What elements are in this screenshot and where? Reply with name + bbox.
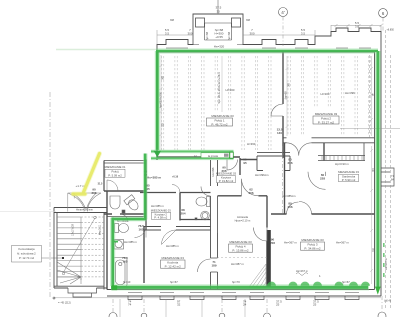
svg-text:hp=68: hp=68 [205,31,209,40]
svg-text:189: 189 [211,264,216,268]
svg-text:25: 25 [276,303,280,307]
svg-text:Hmax=280/mm: Hmax=280/mm [76,209,93,212]
svg-text:31.5: 31.5 [98,183,103,186]
svg-text:300: 300 [187,32,192,36]
svg-text:MIESZKANIE 03: MIESZKANIE 03 [151,208,172,212]
svg-text:P: 15.86 m2: P: 15.86 m2 [232,248,249,252]
svg-text:Hs=385 m: Hs=385 m [166,244,179,248]
svg-text:25: 25 [313,303,317,307]
svg-text:206: 206 [248,191,253,195]
svg-text:hp=67: hp=67 [170,280,178,284]
svg-text:6: 6 [382,11,385,16]
svg-text:Hs=385 m: Hs=385 m [151,204,164,208]
svg-text:Hp=0.90 m: Hp=0.90 m [335,162,349,166]
svg-text:Hs=385cm: Hs=385cm [282,194,296,198]
svg-text:Hs=385 m: Hs=385 m [124,240,137,244]
svg-text:P: 19.82 m2: P: 19.82 m2 [219,179,234,183]
svg-text:hp=70: hp=70 [232,280,240,284]
svg-text:MIESZKANIE 03: MIESZKANIE 03 [229,240,252,244]
svg-text:95: 95 [243,161,247,165]
svg-text:MIESZKANIE 03: MIESZKANIE 03 [211,114,234,118]
svg-text:= -45 (212): = -45 (212) [58,301,71,305]
svg-text:P: 5.90 m2: P: 5.90 m2 [342,178,356,182]
svg-text:206: 206 [91,191,96,195]
svg-text:P: 4.58 m2: P: 4.58 m2 [154,216,168,220]
svg-text:30: 30 [217,10,221,14]
svg-text:H=360: H=360 [247,142,256,146]
svg-text:P: 46.72 m2: P: 46.72 m2 [211,122,228,126]
svg-text:165: 165 [138,228,143,232]
svg-text:Komunikacja: Komunikacja [18,247,34,251]
svg-text:MIESZKANIE 03: MIESZKANIE 03 [216,172,237,176]
svg-text:Hs=267 m: Hs=267 m [384,258,388,270]
svg-text:+0.16: +0.16 [172,176,179,179]
svg-text:206: 206 [270,241,275,245]
svg-text:H=300: H=300 [321,92,330,96]
svg-text:Hs=396cm: Hs=396cm [255,173,269,177]
svg-text:Antresola: Antresola [237,215,249,219]
svg-text:MIESZKANIE 03: MIESZKANIE 03 [162,256,185,260]
svg-text:P: 12.74 m2: P: 12.74 m2 [19,256,35,260]
svg-text:228: 228 [320,177,325,181]
svg-text:ła prosta: ła prosta [208,154,219,158]
svg-text:3.5: 3.5 [355,25,360,29]
svg-text:206: 206 [287,205,292,209]
svg-text:hp=10: hp=10 [123,280,131,284]
svg-text:Hs=367 m: Hs=367 m [336,241,349,245]
svg-text:H=300: H=300 [226,88,235,92]
svg-text:+0.55: +0.55 [215,35,223,39]
svg-text:hp=68: hp=68 [227,31,231,40]
svg-text:hp=67: hp=67 [342,280,350,284]
svg-text:P: 33.27 m2: P: 33.27 m2 [318,120,335,124]
svg-text:Hs=385 m: Hs=385 m [147,176,161,180]
svg-text:P: 12.42 m2: P: 12.42 m2 [165,264,182,268]
svg-text:(-)0.45: (-)0.45 [384,300,392,303]
svg-text:Hpon=2.10 m: Hpon=2.10 m [235,219,251,223]
svg-text:368: 368 [246,19,251,22]
svg-text:Korytarz 2: Korytarz 2 [155,212,168,216]
svg-text:Hs=396: Hs=396 [211,167,215,177]
svg-text:Spr. 36.2+36.6+32.2+28.4: Spr. 36.2+36.6+32.2+28.4 [217,72,221,104]
svg-text:206: 206 [287,161,292,165]
svg-text:300: 300 [249,32,254,36]
svg-text:Hs=267 m: Hs=267 m [296,269,308,273]
svg-text:165: 165 [122,260,127,264]
svg-text:Hs=387 m: Hs=387 m [231,262,244,266]
svg-text:Hs=396: Hs=396 [345,91,355,95]
svg-text:3.5: 3.5 [301,32,306,36]
svg-text:17x17.6/29: 17x17.6/29 [72,223,75,236]
svg-text:140: 140 [277,131,282,135]
svg-text:kl. schodowa 2: kl. schodowa 2 [17,252,36,256]
svg-text:MIESZKANIE 03: MIESZKANIE 03 [301,238,324,242]
svg-text:+6.850: +6.850 [387,29,395,32]
svg-text:368: 368 [170,19,175,22]
svg-text:bieg 2x11: bieg 2x11 [99,224,102,235]
svg-text:3.5: 3.5 [165,32,170,36]
svg-text:24: 24 [243,303,247,307]
svg-text:MIESZKANIE 01: MIESZKANIE 01 [105,165,126,169]
svg-text:P: 34.86 m2: P: 34.86 m2 [304,246,321,250]
svg-text:P: 5.09 m2: P: 5.09 m2 [108,174,122,178]
svg-text:74: 74 [128,303,132,307]
svg-text:32: 32 [177,303,181,307]
svg-text:Hs=320: Hs=320 [214,45,225,49]
svg-text:Hs=367 m: Hs=367 m [284,241,297,245]
svg-text:MIESZKANIE 03: MIESZKANIE 03 [315,112,338,116]
svg-text:4': 4' [281,10,285,15]
svg-text:204: 204 [180,212,185,216]
